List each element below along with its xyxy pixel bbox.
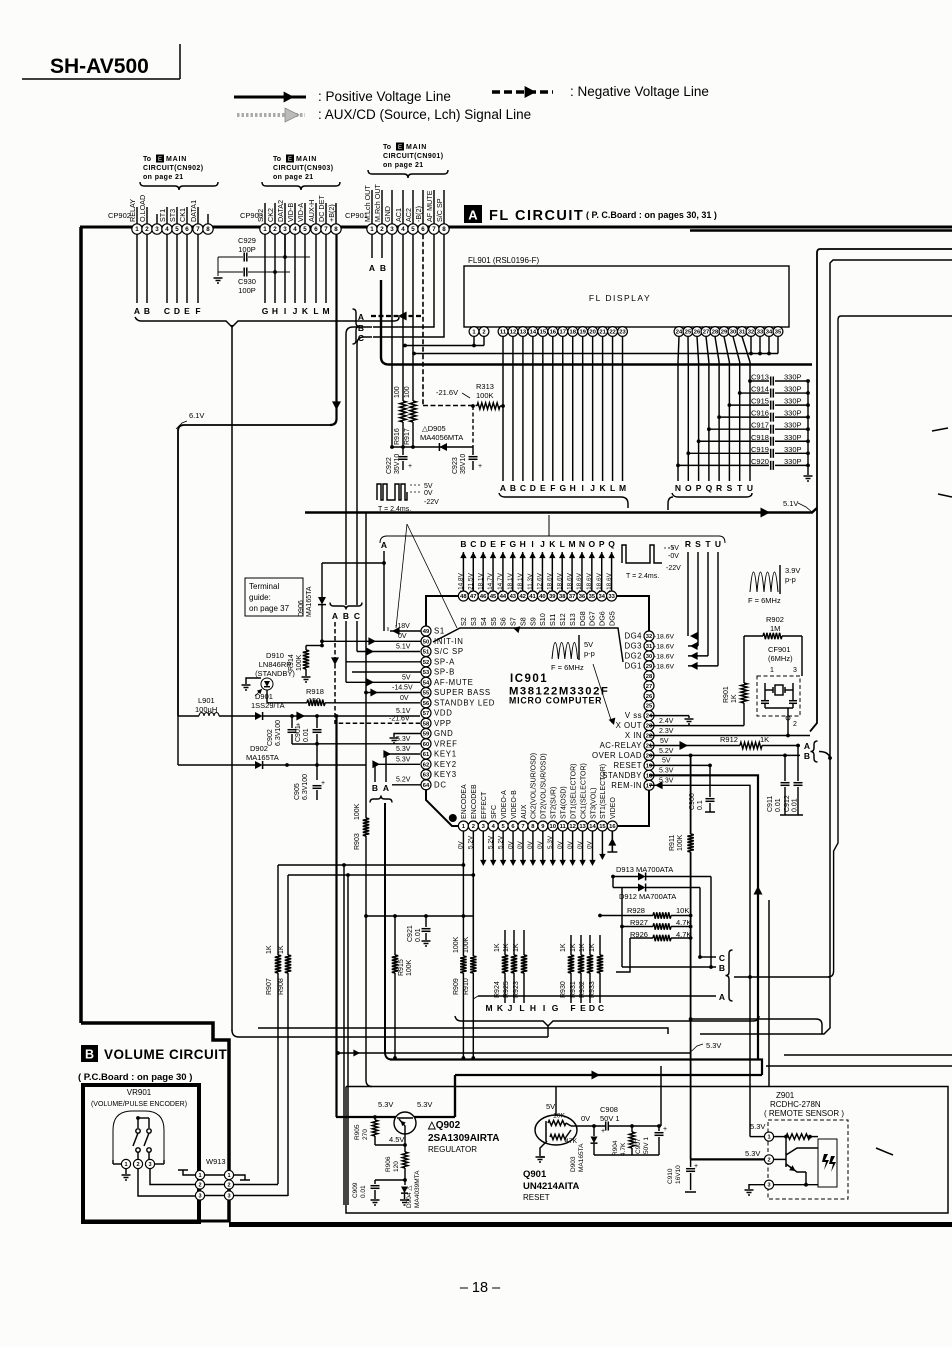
- svg-text:22: 22: [609, 330, 615, 336]
- wire CP902 bus gather: [135, 317, 399, 327]
- diode D902 MA165TA: [178, 744, 366, 769]
- svg-text:100K: 100K: [296, 654, 303, 671]
- svg-text:5.3V: 5.3V: [547, 835, 554, 849]
- svg-text:-18.6V: -18.6V: [654, 653, 674, 660]
- svg-text:P: P: [599, 539, 605, 549]
- svg-text:16V10: 16V10: [675, 1165, 682, 1184]
- svg-text:5.3V: 5.3V: [417, 1100, 432, 1109]
- svg-text:C902: C902: [267, 729, 274, 746]
- node letters G H I J K L M: [262, 306, 330, 316]
- svg-text:G: G: [262, 306, 269, 316]
- svg-text:S: S: [727, 483, 733, 493]
- svg-text:p-p: p-p: [584, 649, 595, 658]
- capacitor C905 6.3V100: [294, 765, 325, 800]
- svg-text:C915: C915: [751, 397, 769, 406]
- wire node B to AF-MUTE: [346, 678, 420, 686]
- svg-text:B: B: [358, 323, 364, 333]
- wire bus y1086 stub: [768, 900, 770, 1086]
- wire right bus y260: [700, 260, 952, 1034]
- wire top pin columns with arrows: [458, 552, 615, 592]
- svg-text:STANDBY LED: STANDBY LED: [434, 698, 495, 707]
- node letters A B C D E F: [134, 306, 201, 316]
- svg-text:45: 45: [490, 594, 497, 600]
- svg-text:62: 62: [423, 762, 429, 768]
- svg-text:V ss: V ss: [625, 711, 642, 720]
- svg-text:Q901: Q901: [523, 1169, 547, 1180]
- diode D912 MA700ATA: [613, 877, 700, 958]
- svg-text:3: 3: [283, 226, 287, 233]
- svg-text:R928: R928: [627, 906, 645, 915]
- wire VREF row: [315, 736, 421, 765]
- svg-text:C908: C908: [600, 1105, 618, 1114]
- svg-text:A: A: [369, 263, 375, 273]
- wire S-bus gather inside IC: [433, 626, 623, 662]
- svg-text:S4: S4: [479, 617, 488, 626]
- svg-text:28: 28: [646, 674, 653, 680]
- ground for R914: [302, 677, 311, 682]
- svg-text:on page 21: on page 21: [143, 174, 184, 181]
- svg-text:0.01: 0.01: [360, 1185, 367, 1198]
- wire right bus y249: [810, 249, 952, 732]
- svg-text:DG1: DG1: [624, 661, 642, 670]
- svg-text:+B(2): +B(2): [327, 204, 336, 222]
- box bottom section border: [346, 1087, 948, 1214]
- svg-text:H: H: [272, 306, 278, 316]
- svg-text:EFFECT: EFFECT: [481, 791, 488, 819]
- svg-text:-12.6V: -12.6V: [537, 572, 544, 592]
- svg-text:MA165TA: MA165TA: [246, 753, 279, 762]
- svg-text:0V: 0V: [507, 840, 514, 849]
- svg-text:E: E: [398, 145, 402, 151]
- ground C910: [685, 1191, 696, 1193]
- title SH-AV500: [22, 44, 180, 79]
- svg-text:1: 1: [227, 1173, 230, 1179]
- capacitor C923 35V10: [452, 447, 482, 474]
- svg-text:2: 2: [767, 1157, 770, 1163]
- svg-text:DC DET: DC DET: [317, 195, 326, 222]
- svg-text:M: M: [619, 483, 626, 493]
- svg-text:A: A: [358, 312, 364, 322]
- svg-text:C907: C907: [635, 1138, 642, 1154]
- svg-text:51: 51: [423, 650, 430, 656]
- svg-text:R905: R905: [354, 1124, 361, 1140]
- svg-text:0V: 0V: [577, 840, 584, 849]
- svg-text:40: 40: [539, 594, 545, 600]
- svg-text:1SS29/TA: 1SS29/TA: [251, 701, 285, 710]
- ground Z901 pin3: [745, 1190, 754, 1195]
- svg-text:-18.6V: -18.6V: [566, 572, 573, 592]
- svg-text:GND: GND: [434, 729, 453, 738]
- svg-text:0V: 0V: [517, 840, 524, 849]
- wire node C row: [698, 955, 716, 959]
- svg-text:33: 33: [757, 330, 764, 336]
- node letters M K J L H I G F E D C below IC: [485, 1003, 604, 1013]
- svg-text:28: 28: [712, 330, 719, 336]
- svg-text:5.2V: 5.2V: [487, 835, 494, 849]
- svg-text:AF MUTE: AF MUTE: [425, 190, 434, 222]
- node A right: [804, 741, 810, 751]
- svg-text:100K: 100K: [677, 834, 684, 851]
- svg-text:12: 12: [569, 824, 575, 830]
- diode D905 MA4056MTA: [392, 424, 473, 451]
- svg-text:R903: R903: [354, 833, 361, 850]
- svg-text:FL901 (RSL0196-F): FL901 (RSL0196-F): [468, 256, 539, 265]
- wire main 5V bus: [381, 280, 812, 365]
- svg-text:100: 100: [394, 386, 401, 398]
- svg-text:0V: 0V: [581, 1114, 590, 1123]
- svg-text:F: F: [570, 1003, 575, 1013]
- svg-text:R910: R910: [463, 978, 470, 995]
- diode D910 LN846RP standby LED: [246, 651, 295, 703]
- wire bus thick y1075: [455, 1071, 762, 1118]
- svg-text:2SA1309AIRTA: 2SA1309AIRTA: [428, 1133, 500, 1144]
- svg-text:To: To: [143, 156, 151, 163]
- wire STANDBY row thick: [649, 768, 758, 1061]
- svg-text:ENCODEA: ENCODEA: [461, 784, 468, 819]
- svg-text:– 18 –: – 18 –: [460, 1280, 501, 1296]
- wire C901 C902 common: [292, 743, 317, 745]
- svg-text:R916: R916: [394, 428, 401, 445]
- svg-text:8: 8: [206, 226, 210, 233]
- svg-text:M: M: [485, 1003, 492, 1013]
- svg-text:N: N: [579, 539, 585, 549]
- svg-text:0V: 0V: [424, 490, 433, 497]
- svg-text:To: To: [273, 156, 281, 163]
- svg-text:R: R: [716, 483, 722, 493]
- svg-text:R313: R313: [476, 382, 494, 391]
- svg-text:C918: C918: [751, 433, 769, 442]
- node letters B-Q above IC: [460, 539, 615, 549]
- svg-text:D: D: [174, 306, 180, 316]
- svg-text:8: 8: [442, 226, 446, 233]
- svg-text:D: D: [530, 483, 536, 493]
- svg-text:VREF: VREF: [434, 739, 458, 748]
- wire bus bracket below IC: [455, 1016, 759, 1037]
- svg-text:VIDEO-B: VIDEO-B: [511, 790, 518, 819]
- legend aux/cd signal line: [237, 107, 531, 122]
- svg-text:3: 3: [767, 1183, 770, 1189]
- svg-text:R918: R918: [306, 687, 324, 696]
- svg-text:21: 21: [646, 744, 653, 750]
- svg-text:5V: 5V: [424, 483, 433, 490]
- svg-text:0V: 0V: [398, 633, 407, 640]
- ground VR901 pin1: [122, 1175, 131, 1180]
- wire INIT-IN row: [320, 633, 421, 645]
- svg-text:19: 19: [646, 763, 653, 769]
- svg-text:330P: 330P: [784, 409, 802, 418]
- resistor R902 1M: [744, 615, 802, 639]
- wire FL pins 11-23 columns: [503, 337, 623, 482]
- svg-text:57: 57: [423, 711, 429, 717]
- svg-text:18: 18: [569, 330, 576, 336]
- svg-text:60: 60: [423, 742, 429, 748]
- svg-text:1: 1: [770, 667, 774, 674]
- svg-text:-22V: -22V: [424, 499, 439, 506]
- svg-text:M: M: [322, 306, 329, 316]
- svg-text:-5V: -5V: [668, 545, 679, 552]
- wire reset common rail: [540, 1155, 659, 1157]
- svg-text:DC: DC: [434, 780, 447, 789]
- capacitor C901 0.01: [295, 716, 322, 744]
- brace right C B A: [726, 950, 831, 1001]
- svg-text:1K: 1K: [513, 943, 520, 952]
- wire 5.3V row y916: [364, 914, 473, 918]
- svg-text:O: O: [685, 483, 692, 493]
- resistor R924 1K: [494, 930, 508, 1003]
- svg-text:R908: R908: [278, 978, 285, 995]
- ic IC901 top pins 33-48: [458, 591, 616, 626]
- svg-text:REM-IN: REM-IN: [611, 781, 642, 790]
- svg-text:100P: 100P: [238, 286, 256, 295]
- svg-text:REGULATOR: REGULATOR: [428, 1145, 477, 1154]
- svg-text:2: 2: [136, 1162, 139, 1168]
- svg-text:ST1: ST1: [158, 209, 167, 222]
- svg-text:330P: 330P: [784, 421, 802, 430]
- wire 5.3V to Z901 pin2: [691, 1158, 764, 1160]
- wire node C to S/C SP: [357, 648, 420, 656]
- wire y1019 link: [691, 1019, 822, 1034]
- svg-text:-B(2): -B(2): [414, 206, 423, 222]
- node letters R S T U above IC: [685, 539, 721, 549]
- svg-text:1K: 1K: [503, 943, 510, 952]
- svg-text:25: 25: [685, 330, 692, 336]
- svg-text:-18.6V: -18.6V: [654, 663, 674, 670]
- svg-text:VIDEO: VIDEO: [610, 797, 617, 819]
- wire bus y1066 right: [766, 1065, 952, 1067]
- svg-text:: Positive Voltage Line: : Positive Voltage Line: [318, 89, 451, 104]
- svg-text:VOLUME CIRCUIT: VOLUME CIRCUIT: [104, 1047, 228, 1062]
- svg-text:59: 59: [423, 732, 430, 738]
- wire cap bank common: [807, 381, 809, 475]
- svg-text:SH-AV500: SH-AV500: [50, 55, 149, 78]
- capacitor C906 0.1: [689, 765, 715, 812]
- svg-text:DT2(VOL/SUR/OSD): DT2(VOL/SUR/OSD): [541, 753, 548, 819]
- svg-text:ST3(VOL): ST3(VOL): [590, 787, 597, 819]
- svg-text:0.01: 0.01: [415, 928, 422, 942]
- svg-text:AUX: AUX: [521, 804, 528, 819]
- svg-text:5V: 5V: [660, 738, 669, 745]
- svg-text:B: B: [380, 263, 386, 273]
- svg-text:STANDBY: STANDBY: [602, 771, 642, 780]
- svg-text:S6: S6: [499, 617, 508, 626]
- svg-text:H: H: [570, 483, 576, 493]
- svg-text:△D905: △D905: [422, 424, 446, 433]
- svg-text:VR901: VR901: [127, 1088, 152, 1097]
- brace for A B C rows: [353, 309, 360, 344]
- wire KEY row y865: [278, 863, 465, 867]
- label 0V: [581, 1114, 590, 1123]
- svg-text:Z901: Z901: [776, 1091, 795, 1100]
- node letters A B C mid: [329, 603, 363, 622]
- svg-text:-18.6V: -18.6V: [547, 572, 554, 592]
- resistor R927 4.7K: [620, 918, 692, 930]
- svg-text:21: 21: [599, 330, 606, 336]
- svg-text:LN846RP: LN846RP: [259, 660, 292, 669]
- connector header CN903: [262, 155, 340, 191]
- svg-text:6: 6: [314, 226, 318, 233]
- svg-text:5.3V: 5.3V: [659, 778, 674, 785]
- svg-text:RESET: RESET: [614, 761, 643, 770]
- svg-text:B: B: [719, 963, 725, 973]
- svg-text:7: 7: [196, 226, 200, 233]
- svg-text:1: 1: [767, 1135, 770, 1141]
- svg-text:5.2V: 5.2V: [396, 777, 411, 784]
- svg-text:C923: C923: [452, 457, 459, 474]
- resistor R930 1K: [560, 935, 574, 1003]
- svg-text:ENCODEB: ENCODEB: [471, 784, 478, 819]
- svg-text:VDD: VDD: [434, 709, 453, 718]
- connector W913: [195, 1157, 233, 1200]
- capacitor C920 330P: [676, 457, 810, 470]
- svg-text:R912: R912: [720, 735, 738, 744]
- svg-text:UN4214AITA: UN4214AITA: [523, 1181, 579, 1192]
- svg-text:1: 1: [263, 226, 267, 233]
- svg-text:5.2V: 5.2V: [659, 748, 674, 755]
- svg-text:0.1: 0.1: [697, 800, 704, 810]
- ground for C930: [214, 257, 223, 283]
- svg-text:2: 2: [227, 1183, 230, 1189]
- wire X OUT network: [649, 636, 744, 726]
- capacitor C911 0.01: [767, 755, 790, 815]
- node letters C B A right: [719, 953, 725, 1002]
- ic IC901 left pins 49-64: [421, 626, 495, 790]
- svg-text:50V 1: 50V 1: [600, 1114, 620, 1123]
- svg-text:22: 22: [646, 734, 652, 740]
- wire top border line: [80, 227, 952, 231]
- svg-text:P: P: [696, 483, 702, 493]
- resistor R313 100K: [476, 382, 505, 409]
- svg-text:S13: S13: [568, 613, 577, 626]
- svg-text:R906: R906: [385, 1156, 392, 1172]
- svg-text:27: 27: [646, 684, 652, 690]
- svg-text:C929: C929: [238, 236, 256, 245]
- resistor R912 1K: [649, 735, 800, 750]
- svg-text:CK1: CK1: [178, 208, 187, 222]
- svg-text:100: 100: [404, 386, 411, 398]
- svg-text:+: +: [601, 1128, 605, 1135]
- svg-text:RCDHC-278N: RCDHC-278N: [770, 1100, 821, 1109]
- diode D903 MA165TA: [570, 1126, 598, 1172]
- svg-text:5: 5: [411, 226, 415, 233]
- svg-text:C: C: [164, 306, 170, 316]
- svg-text:F: F: [550, 483, 555, 493]
- svg-text:p-p: p-p: [785, 575, 796, 584]
- svg-text:11: 11: [500, 330, 507, 336]
- wire bus y1053: [336, 1050, 690, 1057]
- svg-text:34: 34: [766, 330, 773, 336]
- wire bus y1055 right: [784, 1054, 952, 1056]
- svg-text:A: A: [468, 208, 478, 223]
- svg-text:6: 6: [185, 226, 189, 233]
- transistor Q902 2SA1309AIRTA: [336, 1100, 500, 1154]
- wire x366 down to bottom box: [366, 916, 372, 1087]
- svg-text:C917: C917: [751, 421, 769, 430]
- svg-text:B: B: [144, 306, 150, 316]
- svg-text:55: 55: [423, 691, 430, 697]
- svg-text:L901: L901: [198, 696, 215, 705]
- capacitor C907 50V1: [635, 1126, 667, 1155]
- svg-text:+: +: [408, 463, 412, 470]
- svg-text:5V: 5V: [546, 1102, 555, 1111]
- svg-text:B: B: [510, 483, 516, 493]
- wire x661 link: [660, 1066, 662, 1126]
- svg-text:36: 36: [579, 594, 586, 600]
- ic IC901 bottom pins 1-16: [458, 753, 617, 831]
- svg-text:-18.1V: -18.1V: [477, 572, 484, 592]
- wire SUPER BASS row: [364, 685, 421, 697]
- resistor R905 270: [354, 1115, 405, 1145]
- svg-text:53: 53: [423, 670, 430, 676]
- svg-text:To: To: [383, 144, 391, 151]
- svg-text:K: K: [497, 1003, 504, 1013]
- capacitor C902 6.3V100: [267, 716, 300, 746]
- wire vertical x344: [343, 865, 345, 1205]
- svg-text:G: G: [559, 483, 566, 493]
- svg-text:-18.6V: -18.6V: [596, 572, 603, 592]
- svg-text:330P: 330P: [784, 433, 802, 442]
- svg-text:26: 26: [646, 694, 653, 700]
- connector header CN901: [368, 143, 448, 179]
- svg-text:H: H: [530, 1003, 536, 1013]
- svg-text:2: 2: [198, 1183, 201, 1189]
- svg-text:DG6: DG6: [598, 611, 607, 626]
- wire 5.1V bus: [305, 499, 817, 518]
- capacitor C909 0.01: [352, 1180, 405, 1199]
- wire node B row: [622, 927, 716, 969]
- svg-text:AUX-H: AUX-H: [307, 200, 316, 222]
- wire 5.3V vertical x690: [687, 755, 693, 1159]
- svg-text:B: B: [343, 611, 349, 621]
- svg-text:L: L: [519, 1003, 524, 1013]
- node letters A B under CP901: [369, 263, 386, 273]
- svg-text:12: 12: [510, 330, 516, 336]
- waveform 5V p-p 6MHz inside IC: [551, 635, 615, 725]
- svg-text:: AUX/CD (Source, Lch) Signal: : AUX/CD (Source, Lch) Signal Line: [318, 107, 531, 122]
- svg-text:MICRO COMPUTER: MICRO COMPUTER: [509, 696, 602, 706]
- node row B: [346, 323, 372, 682]
- resistor R914 100K: [288, 646, 322, 677]
- svg-text:17: 17: [560, 330, 566, 336]
- section label A FL CIRCUIT: [464, 205, 717, 224]
- resistor R916 100: [394, 386, 406, 447]
- svg-text:-14.7V: -14.7V: [497, 572, 504, 592]
- svg-text:AF-MUTE: AF-MUTE: [434, 678, 474, 687]
- svg-text:100K: 100K: [476, 391, 494, 400]
- label -21.6V VPP: [389, 716, 410, 723]
- svg-text:3: 3: [793, 667, 797, 674]
- svg-text:C: C: [470, 539, 476, 549]
- resistor R917 100: [404, 386, 416, 447]
- resistor R915 100K: [392, 916, 413, 1060]
- svg-text:S9: S9: [528, 617, 537, 626]
- svg-text:E: E: [288, 157, 292, 163]
- svg-text:-18.6V: -18.6V: [556, 572, 563, 592]
- svg-text:DG3: DG3: [624, 642, 642, 651]
- svg-text:48: 48: [460, 594, 467, 600]
- svg-text:1: 1: [198, 1173, 201, 1179]
- svg-text:2: 2: [273, 226, 277, 233]
- svg-text:K: K: [600, 483, 607, 493]
- svg-text:330P: 330P: [784, 385, 802, 394]
- wire STANDBY LED row label: [400, 695, 409, 702]
- capacitor C912 0.01: [784, 746, 803, 816]
- resistor R909 100K: [453, 936, 467, 1060]
- svg-text:T = 2.4ms.: T = 2.4ms.: [378, 506, 411, 513]
- svg-text:K: K: [302, 306, 309, 316]
- svg-text:AC-RELAY: AC-RELAY: [600, 741, 643, 750]
- svg-text:A: A: [381, 540, 387, 550]
- wire KEY wires from B A: [372, 750, 420, 782]
